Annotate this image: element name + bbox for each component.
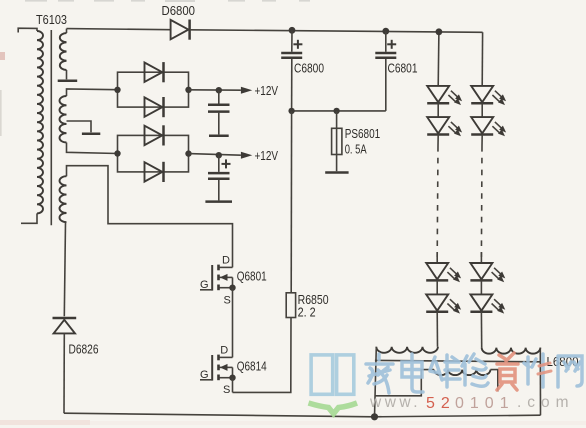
- node: Q6814 source: [229, 375, 235, 381]
- svg-text:C6800: C6800: [294, 61, 324, 76]
- watermark character 7: [558, 356, 582, 387]
- LED D1 string 2: [471, 86, 506, 105]
- node: pair 2 output: [185, 150, 191, 156]
- wire: secondary 1 top to rail: [66, 29, 68, 33]
- svg-text:C6801: C6801: [388, 61, 418, 76]
- diode pair 1 lower: [145, 97, 164, 117]
- watermark character 3: [430, 355, 460, 387]
- left edge scan artifacts: [0, 90, 2, 136]
- node: Q6801 source: [229, 285, 235, 291]
- wire: string 1 to L6800: [436, 312, 438, 347]
- arrow +12V lower: [241, 152, 252, 159]
- wire: negative bus under caps: [292, 110, 386, 112]
- svg-text:www.: www.: [369, 394, 421, 411]
- LED D2 string 2: [471, 117, 506, 136]
- wire: secondary 2 centre tap: [67, 121, 92, 132]
- wire: [481, 103, 483, 117]
- capacitor C6800: [291, 30, 293, 52]
- wire: dashed continuation string 1: [437, 135, 439, 147]
- wire: [436, 280, 438, 294]
- node: cap negative bus left: [288, 108, 294, 114]
- transformer secondary winding 1: [60, 33, 67, 70]
- wire: [437, 103, 439, 117]
- inductor L6800 winding right: [482, 348, 541, 354]
- svg-text:0. 5A: 0. 5A: [345, 142, 367, 157]
- svg-text:G: G: [200, 279, 209, 291]
- watermark character 4: [462, 354, 488, 386]
- transformer secondary winding 3: [60, 176, 67, 222]
- wire: R6850 bottom to Q6814 source: [233, 318, 292, 393]
- watermark character 2: [402, 354, 423, 392]
- LED D3 string 2: [470, 263, 505, 282]
- transistor Q6814: [200, 355, 233, 381]
- wire: Q6801 source to Q6814 drain: [232, 288, 234, 358]
- wire: secondary 3 top to Q6801 drain: [67, 166, 233, 268]
- wire: secondary 1 bottom stub: [66, 70, 68, 79]
- node: pair 1 input: [114, 87, 120, 93]
- LED D1 string 1: [427, 86, 462, 105]
- capacitor C6801: [385, 31, 387, 52]
- resistor R6850: [286, 293, 295, 318]
- top rail wire: [67, 29, 171, 30]
- svg-text:S: S: [223, 384, 230, 396]
- svg-text:D6800: D6800: [162, 3, 196, 18]
- svg-text:+12V: +12V: [255, 83, 279, 98]
- node: rail at C6801: [382, 28, 389, 35]
- svg-text:D: D: [222, 255, 230, 267]
- rectifier pair 1 loop: [118, 72, 189, 107]
- LED D4 string 1: [426, 294, 461, 313]
- wire: AC input top lead: [18, 28, 37, 32]
- chassis bar under secondary 1: [58, 79, 77, 82]
- diode pair 2 upper: [145, 125, 164, 145]
- LED D3 string 1: [426, 263, 461, 282]
- transformer core: [50, 30, 52, 225]
- wire: dashed continuation string 2: [481, 135, 483, 147]
- wire: secondary 2 bottom to rectifier pair 2: [67, 143, 118, 154]
- top rail wire right of D6800: [190, 30, 483, 33]
- node: rail at LED string 1: [436, 28, 443, 35]
- wire: L6800 left edge: [375, 347, 377, 417]
- svg-text:.com: .com: [517, 394, 575, 411]
- svg-text:S: S: [224, 295, 231, 307]
- wire: inner winding left lead: [375, 370, 434, 396]
- wire: pair 1 output to +12V: [189, 89, 241, 91]
- ground bar of centre tap: [82, 132, 100, 135]
- svg-text:T6103: T6103: [36, 12, 67, 27]
- node: filter cap 1: [216, 87, 222, 93]
- rectifier pair 2 loop: [118, 135, 189, 172]
- node: rail at C6800: [289, 27, 296, 34]
- watermark book icon: [311, 355, 354, 394]
- svg-text:52: 52: [426, 395, 456, 412]
- fuse PS6801: [336, 111, 338, 154]
- wire: L6800 middle link: [375, 360, 541, 361]
- svg-text:0101: 0101: [455, 395, 515, 412]
- inductor L6800 winding left: [376, 347, 438, 353]
- diode D6826: [53, 317, 77, 320]
- transformer T6103 primary winding: [37, 31, 43, 213]
- wire: LED string 2 feed: [481, 32, 483, 86]
- wire: secondary 3 bottom to D6826: [64, 222, 65, 316]
- svg-text:D: D: [220, 345, 228, 357]
- wire: AC input bottom lead: [21, 213, 37, 223]
- inductor L6800 winding inner: [434, 370, 490, 375]
- svg-text:G: G: [200, 369, 209, 381]
- watermark character 5: [497, 353, 518, 390]
- svg-text:Q6801: Q6801: [237, 270, 267, 284]
- LED D2 string 1: [427, 117, 462, 136]
- transistor Q6801: [200, 265, 233, 291]
- top edge scan artifacts: [25, 0, 310, 2]
- svg-text:D6826: D6826: [69, 343, 99, 357]
- node: fuse tap: [333, 108, 339, 114]
- watermark character 6 accents: [538, 363, 551, 374]
- svg-text:PS6801: PS6801: [345, 126, 381, 141]
- wire: C6800 bus down to R6850: [290, 111, 292, 293]
- wire: LED string 1 feed: [437, 32, 440, 86]
- wire: Q6814 source down: [232, 378, 234, 393]
- capacitor at +12V upper: [218, 90, 220, 103]
- svg-text:Q6814: Q6814: [237, 359, 267, 373]
- capacitor at +12V lower with polarity: [218, 155, 220, 172]
- watermark character 1: [366, 354, 393, 393]
- diode pair 1 upper: [145, 62, 164, 82]
- LED D4 string 2: [470, 294, 505, 313]
- diode pair 2 lower: [145, 162, 164, 182]
- transformer secondary winding 2: [59, 96, 66, 143]
- wire: pair 2 output to +12V: [189, 154, 241, 156]
- watermark book brace: [309, 403, 358, 414]
- diode D6800: [171, 20, 190, 40]
- node: pair 2 input: [114, 150, 120, 156]
- wire: L6800 right edge: [539, 348, 541, 416]
- wire: [480, 280, 482, 294]
- watermark character 6: [524, 354, 543, 387]
- wire: inner winding right lead: [490, 370, 497, 392]
- node: bottom rail at L6800: [371, 413, 378, 420]
- svg-text:2. 2: 2. 2: [298, 305, 316, 320]
- wire: secondary 2 top to rectifier pair 1: [67, 89, 118, 96]
- node: pair 1 output: [185, 87, 191, 93]
- wire: string 2 to L6800: [480, 312, 482, 348]
- svg-text:+12V: +12V: [255, 148, 279, 163]
- arrow +12V upper: [241, 87, 252, 94]
- bottom rail: [64, 413, 541, 417]
- node: filter cap 2: [216, 152, 222, 158]
- wire: D6826 anode to bottom rail: [63, 333, 65, 413]
